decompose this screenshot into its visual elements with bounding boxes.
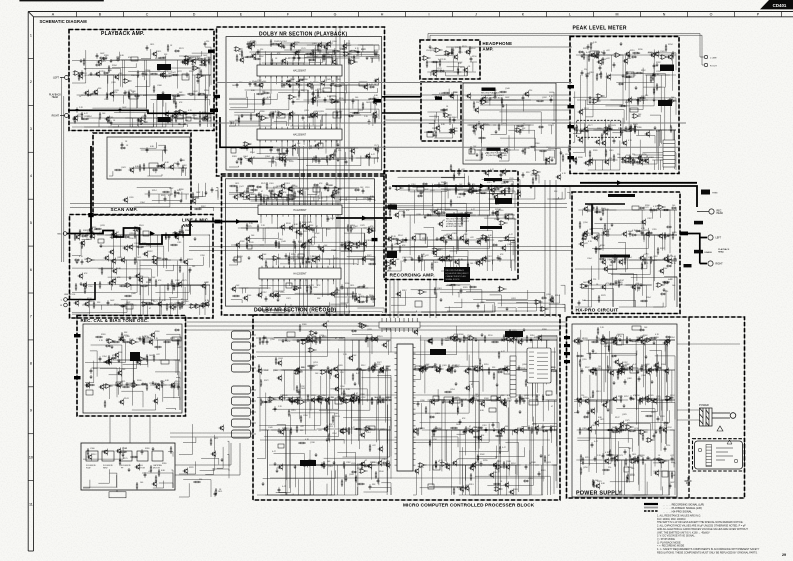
svg-text:1815: 1815 — [157, 166, 161, 168]
wire — [431, 72, 461, 76]
capacitor C104 — [81, 70, 84, 75]
svg-text:I: I — [429, 12, 430, 16]
svg-text:47: 47 — [622, 280, 624, 282]
transistor Q134 — [311, 96, 316, 103]
op-amp IC92 — [656, 283, 665, 288]
resistor R411 — [294, 241, 296, 249]
svg-text:0.47: 0.47 — [269, 296, 273, 298]
wire — [413, 187, 424, 215]
svg-text:R193: R193 — [643, 161, 648, 163]
wire — [229, 255, 238, 265]
svg-text:100: 100 — [470, 263, 473, 265]
black label box — [660, 65, 674, 72]
wire — [582, 130, 615, 140]
resistor R207 — [311, 82, 313, 90]
diode D109 — [103, 72, 109, 74]
trim box — [701, 190, 710, 195]
resistor R459 — [399, 245, 401, 253]
op-amp IC53 — [480, 100, 489, 105]
transistor Q303 — [583, 206, 588, 213]
svg-text:R363: R363 — [625, 102, 630, 104]
transistor Q120 — [250, 41, 255, 48]
resistor R303 — [620, 128, 622, 136]
wire vertical bus center-left — [300, 28, 350, 315]
transistor Q144 — [374, 78, 379, 85]
capacitor C161 — [146, 147, 149, 152]
svg-text:C140: C140 — [316, 97, 321, 99]
wire — [141, 49, 151, 59]
svg-text:REW: REW — [103, 467, 108, 469]
transistor Q238 — [278, 189, 283, 196]
resistor R398 — [229, 185, 237, 187]
capacitor C241 — [300, 231, 303, 236]
transistor Q259 — [245, 236, 250, 243]
svg-text:C164: C164 — [620, 372, 625, 374]
capacitor C234 — [258, 192, 261, 197]
wire — [441, 176, 468, 187]
diode D116 — [99, 57, 105, 59]
resistor R147 — [164, 75, 172, 77]
svg-text:R139: R139 — [642, 460, 647, 462]
resistor R108 — [83, 58, 85, 66]
wire — [396, 210, 458, 248]
resistor R439 — [310, 286, 312, 294]
wire — [314, 228, 323, 233]
junction blob dolby record left edge — [215, 220, 221, 224]
op-amp IC42 — [614, 53, 623, 58]
resistor R285 — [656, 83, 658, 91]
ground — [389, 186, 392, 190]
IC HA12058NT — [260, 48, 337, 94]
ground — [478, 121, 481, 125]
diode D188 — [641, 159, 647, 161]
SCAN AMP block outline — [93, 133, 191, 215]
svg-text:R382: R382 — [251, 194, 256, 196]
capacitor C269 — [479, 187, 482, 192]
op-amp IC54 — [515, 128, 524, 133]
transistor Q136 — [313, 112, 318, 119]
capacitor C154 — [286, 148, 289, 153]
svg-text:C100: C100 — [467, 335, 472, 337]
transistor Q228 — [111, 278, 116, 285]
capacitor C131 — [357, 49, 360, 54]
component block IC63 — [126, 304, 133, 309]
black note block recording amp — [444, 267, 470, 282]
transistor Q250 — [319, 246, 324, 253]
resistor R264 — [624, 130, 632, 132]
capacitor C158 — [270, 147, 273, 152]
ground — [489, 97, 492, 101]
wire — [350, 102, 371, 113]
capacitor C202 — [522, 172, 525, 177]
svg-text:220: 220 — [665, 291, 668, 293]
capacitor C125 — [323, 53, 326, 58]
diode D288 — [671, 207, 677, 209]
resistor R450 — [469, 184, 471, 192]
svg-text:LEFT: LEFT — [53, 77, 59, 80]
thick line into headphone amp — [382, 96, 421, 98]
transistor Q201 — [472, 124, 477, 131]
svg-text:C189: C189 — [509, 178, 514, 180]
wire — [428, 240, 466, 271]
transistor Q304 — [658, 233, 663, 240]
wire — [153, 118, 186, 127]
capacitor C119 — [110, 120, 113, 125]
transistor Q291 — [504, 235, 509, 242]
transistor Q198 — [481, 96, 486, 103]
svg-text:R299: R299 — [483, 460, 488, 462]
wire — [111, 125, 188, 127]
transistor Q306 — [622, 231, 627, 238]
wire — [477, 150, 519, 161]
wire — [229, 112, 271, 126]
svg-text:47: 47 — [552, 426, 554, 428]
resistor R381 — [140, 285, 148, 287]
transistor Q128 — [323, 44, 328, 51]
resistor R291 — [605, 149, 607, 157]
op-amp IC34 — [422, 56, 431, 61]
transistor Q226 — [169, 304, 174, 311]
svg-text:R219: R219 — [630, 50, 635, 52]
svg-text:47: 47 — [443, 220, 445, 222]
ground — [90, 72, 93, 76]
wire vertical bus below recording amp — [390, 180, 556, 318]
diode D209 — [162, 258, 168, 260]
capacitor C176 — [630, 126, 633, 131]
ground — [162, 91, 165, 95]
black label box — [388, 205, 397, 210]
svg-text:Q184: Q184 — [265, 156, 270, 158]
transistor Q270 — [274, 292, 279, 299]
svg-text:EQUALIZER FREQ. ADJ.: EQUALIZER FREQ. ADJ. — [486, 154, 508, 157]
resistor R478 — [504, 188, 506, 196]
op-amp IC50 — [596, 94, 605, 99]
diode D291 — [599, 258, 605, 260]
resistor R290 — [596, 73, 598, 81]
svg-text:R295: R295 — [583, 48, 588, 50]
junction blob headphone sub-box — [435, 97, 442, 100]
svg-text:R345: R345 — [178, 303, 183, 305]
svg-text:6: 6 — [30, 268, 32, 272]
svg-text:220: 220 — [199, 479, 202, 481]
svg-text:C296: C296 — [464, 218, 469, 220]
transistor Q117 — [105, 116, 110, 123]
wire — [625, 140, 640, 163]
wire — [205, 47, 211, 65]
wire — [316, 52, 378, 61]
transistor Q106 — [191, 58, 196, 65]
resistor R104 — [199, 64, 207, 66]
svg-text:0.47: 0.47 — [386, 461, 390, 463]
model tab CD401 — [760, 0, 793, 9]
wire — [176, 285, 210, 295]
wire — [480, 238, 515, 256]
wire — [275, 160, 328, 166]
diode D174 — [633, 161, 639, 163]
ground — [497, 217, 500, 221]
transistor Q123 — [331, 59, 336, 66]
transistor Q290 — [386, 204, 391, 211]
svg-text:R206: R206 — [600, 245, 605, 247]
wire — [629, 130, 661, 146]
svg-text:C333: C333 — [528, 478, 533, 480]
resistor R379 — [90, 231, 92, 239]
svg-text:.022: .022 — [670, 455, 674, 457]
wire — [577, 100, 633, 157]
op-amp IC61 — [189, 304, 198, 309]
svg-text:Q253: Q253 — [304, 189, 309, 191]
svg-text:R328: R328 — [525, 95, 530, 97]
wire — [291, 115, 352, 126]
svg-text:R204: R204 — [452, 117, 457, 119]
junction blob playback right edge — [210, 109, 218, 113]
resistor R178 — [245, 56, 253, 58]
wire — [326, 259, 375, 265]
svg-text:C392: C392 — [346, 462, 351, 464]
transistor Q161 — [453, 54, 458, 61]
wire — [511, 242, 515, 262]
svg-text:Q293: Q293 — [328, 426, 333, 428]
wire — [172, 118, 211, 127]
svg-text:2: 2 — [30, 80, 32, 84]
svg-text:220: 220 — [331, 397, 334, 399]
transistor Q241 — [298, 189, 303, 196]
wire — [345, 288, 368, 297]
wire — [289, 188, 359, 196]
resistor R230 — [156, 165, 164, 167]
svg-text:R202: R202 — [453, 92, 458, 94]
op-amp IC83 — [499, 221, 508, 226]
wire — [238, 228, 318, 244]
resistor R185 — [263, 97, 265, 105]
transistor Q186 — [644, 158, 649, 165]
resistor R314 — [539, 150, 547, 152]
op-amp IC36 — [444, 51, 453, 56]
capacitor C265 — [420, 190, 423, 195]
black label box — [387, 251, 397, 258]
svg-text:.022: .022 — [606, 50, 610, 52]
ground — [194, 237, 197, 241]
resistor R378 — [166, 303, 168, 311]
wire — [491, 100, 531, 125]
ground — [363, 284, 366, 288]
black label box — [157, 94, 171, 100]
transistor Q164 — [435, 125, 440, 132]
svg-text:R277: R277 — [252, 43, 257, 45]
resistor R238 — [431, 70, 439, 72]
wire — [255, 55, 331, 61]
diode D225 — [354, 189, 360, 191]
svg-text:R339: R339 — [250, 41, 255, 43]
resistor R239 — [431, 61, 439, 63]
resistor R151 — [199, 119, 201, 127]
op-amp IC18 — [349, 60, 358, 65]
wire — [84, 103, 153, 127]
svg-text:. . . . . . RECORDING SIGNAL: . . . . . . RECORDING SIGNAL (L/R) — [663, 503, 704, 507]
component block IC89 — [417, 187, 424, 191]
wire — [361, 220, 375, 231]
svg-text:Q266: Q266 — [522, 364, 527, 366]
wire — [314, 290, 336, 294]
diode D226 — [256, 186, 262, 188]
svg-text:Q150: Q150 — [583, 222, 588, 224]
capacitor C134 — [269, 112, 272, 117]
wire — [261, 196, 327, 201]
svg-text:R135: R135 — [155, 58, 160, 60]
thick vertical through scan area — [90, 146, 92, 234]
transistor Q296 — [487, 185, 492, 192]
resistor R181 — [290, 43, 292, 51]
resistor R442 — [467, 262, 469, 270]
wire — [234, 93, 255, 112]
wire — [301, 228, 355, 245]
diode D157 — [365, 156, 371, 158]
transistor Q159 — [123, 197, 128, 204]
transistor Q236 — [280, 183, 285, 190]
resistor R166 — [305, 53, 313, 55]
svg-text:Q313: Q313 — [358, 110, 363, 112]
wire — [594, 130, 640, 135]
transistor Q272 — [394, 212, 399, 219]
svg-text:C209: C209 — [313, 287, 318, 289]
resistor R300 — [589, 150, 591, 158]
svg-text:R100: R100 — [379, 471, 384, 473]
svg-text:MIC: MIC — [57, 234, 61, 236]
svg-text:R336: R336 — [424, 365, 429, 367]
svg-text:R256: R256 — [124, 335, 129, 337]
resistor R267 — [629, 154, 631, 162]
resistor R281 — [601, 133, 603, 141]
svg-text:C113: C113 — [596, 391, 600, 393]
capacitor C137 — [302, 115, 305, 120]
component block IC20 — [323, 88, 331, 92]
ground — [103, 57, 106, 61]
svg-text:C162: C162 — [104, 99, 109, 101]
svg-text:R112: R112 — [92, 454, 96, 456]
DOLBY NR RECORD block outline — [222, 174, 387, 315]
svg-text:C305: C305 — [649, 395, 654, 397]
resistor R366 — [134, 231, 136, 239]
svg-text:Q382: Q382 — [627, 378, 632, 380]
wire — [482, 180, 520, 192]
op-amp IC24 — [277, 112, 286, 117]
wire — [314, 158, 379, 164]
resistor R296 — [630, 124, 632, 132]
erase head black label — [694, 221, 703, 225]
svg-text:R163: R163 — [188, 259, 193, 261]
wire — [124, 260, 171, 295]
wire — [109, 118, 145, 126]
wire — [489, 193, 498, 199]
transistor Q206 — [484, 170, 489, 177]
svg-text:C324: C324 — [282, 41, 287, 43]
transistor Q174 — [645, 131, 650, 138]
svg-text:C142: C142 — [264, 370, 269, 372]
svg-text:0.47: 0.47 — [656, 131, 660, 133]
wire — [312, 88, 378, 93]
transistor Q289 — [391, 260, 396, 267]
wire — [72, 242, 81, 255]
svg-text:100P: 100P — [505, 97, 510, 99]
diode D216 — [148, 303, 154, 305]
wire — [492, 260, 516, 271]
ground — [453, 212, 456, 216]
wire — [411, 260, 466, 271]
resistor R344 — [124, 295, 132, 297]
wire — [363, 228, 374, 233]
wire — [478, 215, 515, 231]
svg-text:PLAYBACK AMP.: PLAYBACK AMP. — [101, 31, 145, 37]
wire — [202, 75, 211, 87]
wire — [356, 158, 370, 166]
wire — [387, 237, 428, 248]
ground — [180, 199, 183, 203]
svg-text:REGULATIONS. THESE COMPONENTS: REGULATIONS. THESE COMPONENTS MUST ONLY … — [657, 551, 758, 554]
wire — [591, 160, 618, 170]
svg-text:100P: 100P — [670, 482, 675, 484]
resistor R266 — [635, 72, 643, 74]
svg-text:Q351: Q351 — [304, 110, 309, 112]
wire — [441, 173, 465, 177]
wire — [158, 145, 165, 154]
svg-text:R324: R324 — [131, 75, 136, 77]
resistor R346 — [179, 265, 181, 273]
svg-text:Q173: Q173 — [618, 455, 623, 457]
svg-text:8: 8 — [30, 362, 32, 366]
op-amp IC37 — [449, 129, 458, 134]
resistor R102 — [106, 92, 108, 100]
wire top bus — [428, 34, 702, 48]
resistor R189 — [262, 98, 264, 106]
wire — [449, 236, 457, 251]
svg-text:R287: R287 — [148, 251, 153, 253]
wire — [178, 194, 189, 200]
thick line dolby playback left — [220, 117, 273, 147]
resistor R466 — [472, 186, 474, 194]
wire — [648, 53, 676, 70]
resistor R140 — [144, 113, 146, 121]
transistor Q146 — [255, 112, 260, 119]
svg-text:Q220: Q220 — [640, 336, 645, 338]
resistor R228 — [182, 165, 184, 173]
svg-text:1815: 1815 — [495, 204, 499, 206]
transistor Q244 — [287, 186, 292, 193]
resistor R173 — [253, 58, 261, 60]
svg-text:.022: .022 — [339, 48, 343, 50]
capacitor C186 — [613, 138, 616, 143]
transistor Q212 — [143, 251, 148, 258]
wire — [165, 265, 173, 271]
capacitor C180 — [628, 53, 631, 58]
svg-text:0.47: 0.47 — [586, 52, 590, 54]
wire — [99, 246, 164, 268]
svg-text:47: 47 — [112, 355, 114, 357]
svg-text:220: 220 — [274, 41, 277, 43]
svg-text:C399: C399 — [453, 398, 458, 400]
svg-text:47: 47 — [446, 109, 448, 111]
wire — [239, 288, 267, 293]
transistor Q242 — [245, 194, 250, 201]
resistor R458 — [471, 190, 479, 192]
wire — [340, 288, 376, 296]
ground — [76, 260, 79, 264]
resistor R149 — [196, 58, 204, 60]
resistor R122 — [128, 91, 130, 99]
svg-text:MICRO COMPUTER CONTROLLED PROC: MICRO COMPUTER CONTROLLED PROCESSER BLOC… — [403, 502, 535, 507]
wire — [588, 141, 620, 171]
transistor Q298 — [447, 234, 452, 241]
svg-text:R175: R175 — [182, 280, 187, 282]
